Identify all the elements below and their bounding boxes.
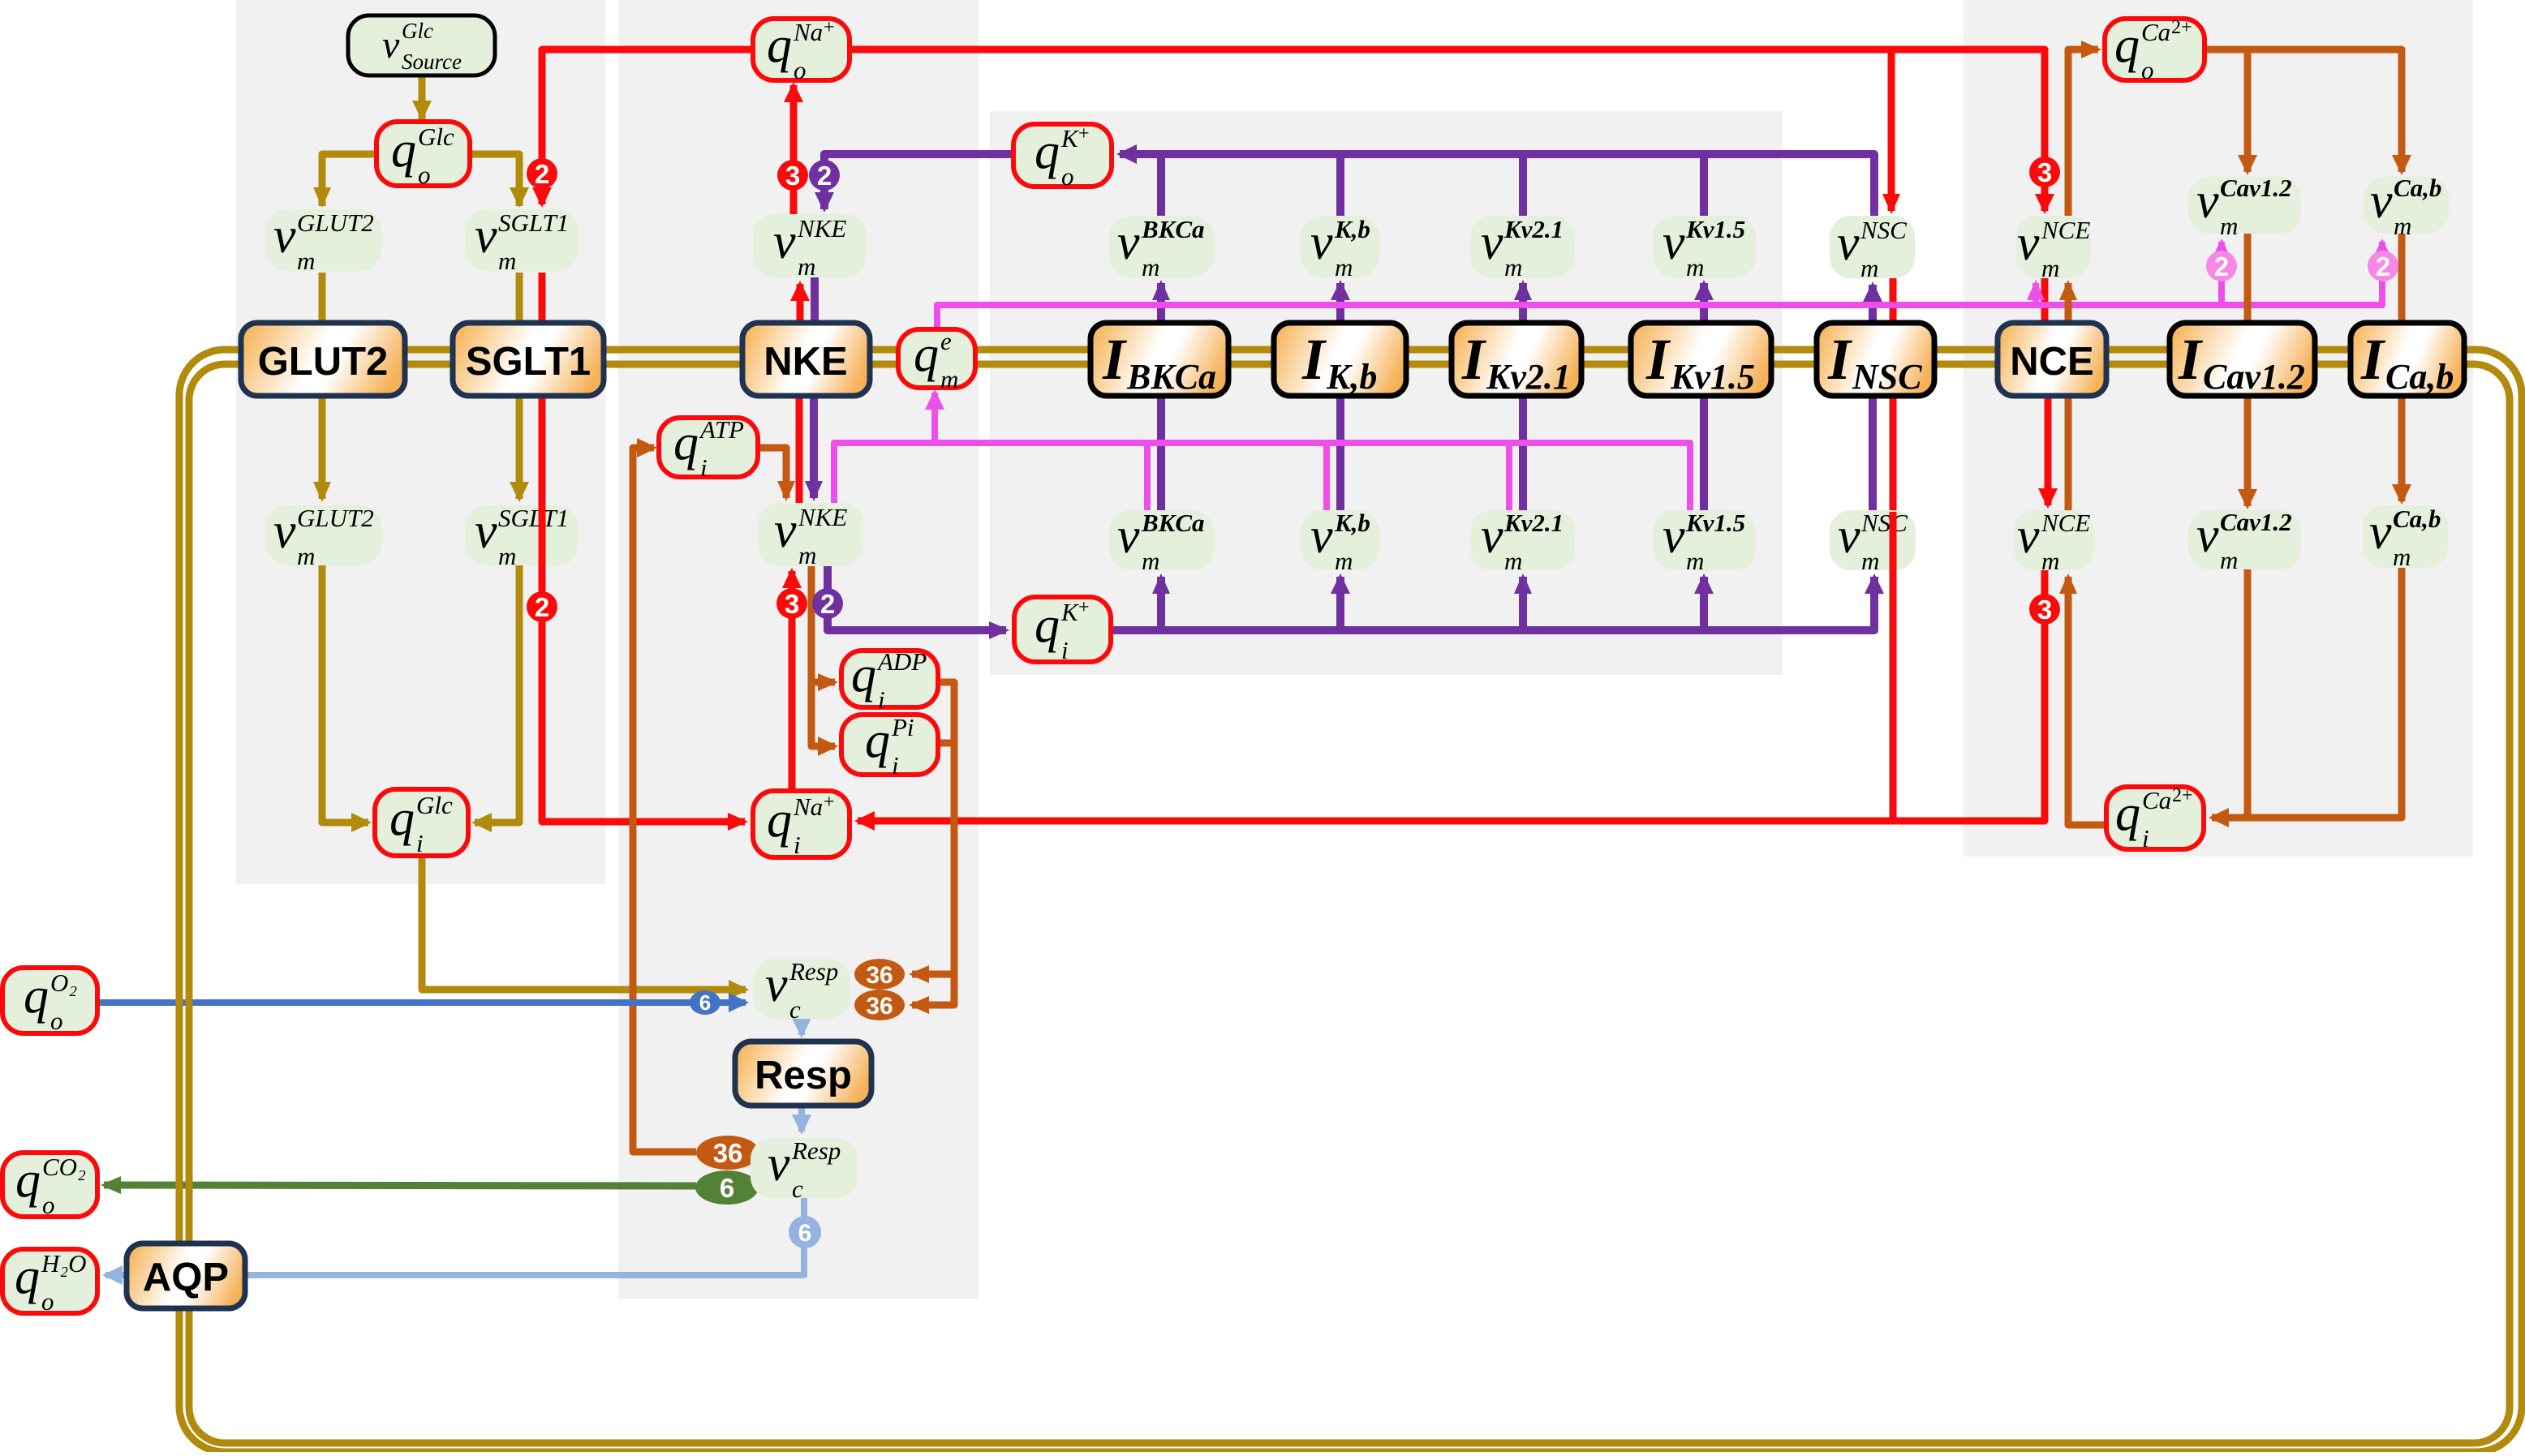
wire q_m^e upper line to v_m^Ca,b (magenta, x2) [937, 238, 2392, 329]
svg-text:Cav1.2: Cav1.2 [2220, 174, 2292, 202]
svg-text:Glc: Glc [416, 791, 453, 819]
node v_m^Cav1.2 upper [2188, 174, 2301, 240]
svg-text:3: 3 [785, 161, 800, 191]
node q_o^Glc [376, 122, 470, 189]
svg-text:CO₂: CO₂ [42, 1153, 86, 1181]
svg-text:m: m [1142, 253, 1159, 281]
svg-text:+: + [1078, 123, 1090, 144]
svg-text:q: q [767, 18, 792, 73]
node v_m^GLUT2 [266, 208, 381, 275]
wire lower line to v_m^K,b lower (magenta) [1323, 443, 1330, 510]
svg-text:v: v [2017, 216, 2040, 271]
svg-text:I: I [1102, 327, 1128, 392]
svg-text:+: + [1078, 597, 1090, 618]
svg-text:i: i [892, 751, 899, 780]
wire v_m^NKE lower to channel lower line (magenta) [834, 443, 1690, 510]
wire lower line to v_m^BKCa lower (magenta) [1144, 443, 1151, 510]
node v_m^Kv2.1 upper [1470, 215, 1575, 281]
svg-text:Ca: Ca [2141, 18, 2170, 46]
wire NCE box to v_m^NCE lower (red) [2038, 396, 2058, 509]
svg-text:K,b: K,b [1334, 215, 1370, 243]
svg-text:2+: 2+ [2171, 17, 2192, 38]
wire I_BKCa to v_m^BKCa upper (purple) [1152, 280, 1170, 323]
wire q_i^K+ up to v_m^Kv1.5 lower (purple) [1694, 573, 1714, 630]
wire red crossing over v_m^SGLT1 lower [539, 505, 546, 565]
badge 3 on v_m^NKE to q_o^Na (red) [777, 160, 808, 191]
svg-text:Glc: Glc [402, 19, 433, 43]
wire q_i^K+ up to v_m^Kv2.1 lower (purple) [1514, 573, 1532, 630]
svg-text:SGLT1: SGLT1 [498, 504, 569, 532]
wire lower line up to q_m^e (magenta) [925, 389, 944, 443]
svg-text:K: K [1060, 598, 1080, 626]
svg-text:m: m [297, 542, 315, 570]
node q_m^e [898, 327, 975, 393]
svg-text:m: m [1504, 253, 1522, 281]
node q_o^O2 [2, 968, 97, 1035]
badge 6 on H2O wire (light blue) [789, 1216, 821, 1248]
svg-text:O₂: O₂ [50, 969, 77, 997]
svg-text:BKCa: BKCa [1141, 215, 1205, 243]
svg-text:v: v [1117, 509, 1140, 564]
svg-text:m: m [798, 252, 815, 281]
badge 2 on SGLT1 to q_i^Na (red) [527, 591, 557, 622]
node v_Source^Glc [348, 15, 495, 75]
svg-text:2: 2 [817, 161, 832, 191]
svg-text:NSC: NSC [1860, 509, 1908, 537]
svg-text:Ca: Ca [2142, 786, 2171, 814]
svg-text:m: m [1861, 547, 1879, 575]
wire q_i^K+ up to v_m^BKCa lower (purple) [1152, 573, 1170, 630]
svg-text:i: i [794, 831, 801, 859]
wire I_NSC to v_m^NSC lower (purple) [1869, 396, 1877, 512]
svg-text:m: m [498, 247, 516, 275]
wire q_o^Na+ branch to v_m^NSC (red) [1882, 49, 1900, 214]
wire v_m^Kv1.5 upper to K line (purple) [1700, 154, 1708, 216]
wire v_m^NCE upper to q_o^Ca2+ (brown) [2068, 41, 2101, 216]
wire v_m^K,b upper to K line (purple) [1336, 154, 1344, 216]
wire v_m^NKE upper to NKE box (purple) [811, 277, 819, 323]
svg-text:m: m [1142, 547, 1159, 575]
wire q_i^ATP to v_m^NKE lower (brown) [758, 448, 795, 501]
wire upper line to v_m^Cav1.2 (magenta, x2) [2212, 238, 2231, 305]
svg-text:ATP: ATP [699, 415, 744, 444]
svg-text:H₂O: H₂O [41, 1249, 87, 1278]
svg-text:I: I [1461, 327, 1487, 392]
svg-text:6: 6 [699, 990, 711, 1015]
cell membrane outer loop (gold) [179, 350, 2522, 1452]
wire red crossing over v_m^NSC lower [1890, 512, 1897, 570]
node v_m^K,b upper [1301, 215, 1379, 281]
node v_m^NCE upper [2016, 216, 2091, 282]
node v_m^GLUT2 lower [266, 504, 381, 570]
wire I_BKCa to v_m^BKCa lower (purple) [1157, 396, 1165, 512]
svg-text:I: I [1827, 327, 1853, 392]
svg-text:v: v [1310, 215, 1333, 270]
wire v_m^NCE upper to NCE box (red) [2041, 278, 2049, 323]
svg-text:v: v [273, 208, 296, 264]
svg-text:q: q [15, 1153, 41, 1208]
svg-text:m: m [297, 247, 315, 275]
svg-text:q: q [2114, 18, 2140, 73]
wire NKE box to v_m^NKE upper (red) [790, 281, 810, 323]
badge 3 on NCE to q_i^Na (red) [2029, 594, 2060, 625]
wire v_m^GLUT2 lower to q_i^Glc (gold) [322, 565, 372, 832]
channel I_Kv2.1 [1452, 323, 1581, 397]
wire q_i^Ca2+ to v_m^NCE lower (brown) [2059, 573, 2106, 825]
channel I_Kv1.5 [1631, 323, 1771, 397]
wire q_o^K+ to v_m^NKE upper (purple, x2) [815, 154, 1013, 213]
channel I_Cav1.2 [2170, 323, 2315, 397]
wire v_m^SGLT1 lower to q_i^Glc (gold) [471, 565, 519, 832]
wire v_c^Resp upper to Resp box (light blue) [792, 1018, 811, 1038]
node q_o^K+ [1013, 123, 1112, 191]
svg-text:q: q [1035, 598, 1060, 653]
wire I_Kv2.1 to v_m^Kv2.1 lower (purple) [1519, 396, 1527, 512]
wire v_m^NKE lower to q_i^ADP (brown) [811, 566, 838, 691]
svg-text:e: e [940, 327, 952, 355]
transporter NCE [1998, 323, 2106, 396]
transporter SGLT1 [453, 323, 604, 396]
badge 2 on NKE to q_i^K (purple) [812, 588, 843, 619]
svg-text:o: o [42, 1191, 55, 1219]
wire v_m^SGLT1 upper to v_m^SGLT1 lower (gold) [510, 273, 529, 502]
node q_o^H2O [2, 1249, 97, 1316]
cell membrane inner loop (gold) [189, 364, 2510, 1443]
wire I_Cav1.2 to v_m^Cav1.2 lower (brown) [2238, 234, 2257, 509]
svg-text:I: I [2360, 327, 2386, 392]
svg-text:v: v [1663, 509, 1685, 564]
wire q_o^Ca2+ branch to v_m^Cav1.2 (brown) [2238, 49, 2257, 175]
svg-text:2: 2 [2214, 251, 2229, 281]
svg-text:o: o [418, 161, 431, 189]
svg-text:i: i [416, 829, 424, 857]
svg-text:o: o [50, 1007, 63, 1035]
reaction Resp [735, 1042, 871, 1106]
badge 3 on q_o^Na to NCE (red) [2029, 157, 2060, 187]
wire q_o^Na+ to v_m^SGLT1 (red, x2) [532, 49, 753, 208]
wire lower line to v_m^Kv2.1 lower (magenta) [1506, 443, 1512, 510]
svg-text:BKCa: BKCa [1126, 357, 1216, 397]
svg-text:m: m [2394, 212, 2411, 240]
wire q_o^Glc to v_m^GLUT2 (gold) [313, 154, 376, 208]
svg-text:v: v [2196, 508, 2219, 563]
svg-text:c: c [789, 995, 801, 1024]
svg-text:v: v [273, 504, 296, 559]
wire I_K,b to v_m^K,b lower (purple) [1336, 396, 1344, 512]
node v_m^NKE lower [758, 503, 863, 569]
channel I_K,b [1274, 323, 1406, 397]
badge 36 on ADP wire (brown) [854, 959, 905, 990]
node v_m^BKCa lower [1109, 509, 1214, 575]
badge 2 on q_o^Na to SGLT1 (red) [527, 158, 557, 189]
node v_m^K,b lower [1301, 509, 1379, 575]
svg-text:2: 2 [535, 592, 549, 622]
svg-text:Ca,b: Ca,b [2393, 505, 2441, 533]
node q_o^Na+ [753, 17, 850, 84]
svg-text:Na: Na [793, 792, 823, 821]
node q_i^ADP [841, 647, 938, 714]
node q_i^Glc [375, 789, 468, 857]
svg-text:v: v [2370, 174, 2393, 229]
wire I_Kv1.5 to v_m^Kv1.5 lower (purple) [1700, 396, 1708, 512]
svg-text:q: q [673, 415, 699, 470]
svg-text:2+: 2+ [2172, 785, 2193, 806]
svg-text:q: q [767, 792, 792, 848]
svg-text:i: i [878, 685, 885, 714]
svg-text:q: q [24, 969, 49, 1024]
svg-text:m: m [498, 542, 516, 570]
wire q_o^Glc to v_m^SGLT1 (gold) [470, 154, 529, 208]
svg-text:I: I [1301, 327, 1327, 392]
badge 2 on q_m^e to v_m^Ca,b (pink) [2368, 251, 2398, 281]
svg-text:3: 3 [2037, 595, 2052, 625]
svg-text:6: 6 [720, 1173, 734, 1203]
wire v_c^Resp lower to q_i^ATP (brown, x36) [633, 438, 696, 1152]
svg-text:m: m [1686, 253, 1704, 281]
svg-text:q: q [1035, 124, 1060, 179]
svg-text:Kv2.1: Kv2.1 [1503, 509, 1564, 537]
svg-text:v: v [1310, 509, 1333, 564]
svg-text:GLUT2: GLUT2 [258, 340, 389, 384]
svg-text:I: I [1645, 327, 1671, 392]
svg-text:NSC: NSC [1860, 216, 1907, 244]
node q_o^CO2 [2, 1153, 97, 1219]
node v_m^Ca,b upper [2364, 174, 2449, 240]
node v_m^Ca,b lower [2363, 505, 2448, 571]
svg-text:Ca,b: Ca,b [2385, 357, 2454, 397]
svg-text:2: 2 [820, 589, 835, 619]
svg-text:q: q [15, 1249, 40, 1304]
svg-text:m: m [1335, 253, 1353, 281]
svg-text:K,b: K,b [1326, 357, 1377, 397]
svg-text:2: 2 [535, 159, 549, 189]
wire q_i^Na+ to v_m^NKE lower (red, x3) [782, 568, 802, 791]
svg-text:m: m [1860, 254, 1878, 282]
wire I_NSC to v_m^NSC upper (purple) [1863, 281, 1882, 323]
channel I_Ca,b [2351, 323, 2464, 397]
wire v_m^NSC lower to red bottom line (red) [1890, 278, 1897, 821]
svg-text:v: v [765, 957, 788, 1012]
wire v_m^Cav1.2 lower to q_i^Ca2+ (brown) [2209, 569, 2248, 827]
badge 2 on q_o^K to NKE (purple) [809, 160, 840, 191]
svg-text:36: 36 [866, 993, 893, 1020]
wire v_m^NKE up to q_o^Na+ (red, x3) [784, 82, 803, 277]
wire I_Kv1.5 to v_m^Kv1.5 upper (purple) [1694, 280, 1714, 323]
node v_m^Kv2.1 lower [1470, 509, 1575, 575]
wire q_i^K+ up to v_m^K,b lower (purple) [1331, 573, 1350, 630]
wire K channels to q_o^K+ (purple) [1116, 144, 1874, 216]
svg-text:m: m [1686, 547, 1704, 575]
wire v_m^GLUT2 upper to v_m^GLUT2 lower (gold) [313, 273, 331, 502]
node q_i^Na+ [753, 791, 850, 859]
node v_m^NSC upper [1830, 216, 1915, 282]
wire v_c^Resp lower to q_o^CO2 (green, x6) [101, 1176, 696, 1194]
badge 2 on q_m^e to v_m^Cav1.2 (pink) [2206, 251, 2237, 281]
wire v_Source to q_o^Glc (gold) [412, 77, 432, 121]
svg-text:Kv1.5: Kv1.5 [1685, 215, 1745, 243]
svg-text:Ca,b: Ca,b [2394, 174, 2441, 202]
svg-text:6: 6 [798, 1220, 812, 1247]
transporter GLUT2 [241, 323, 405, 396]
svg-text:ADP: ADP [876, 647, 927, 676]
svg-text:36: 36 [866, 962, 893, 989]
wire v_m^Ca,b lower joins Ca bottom line (brown) [2248, 568, 2402, 818]
background panel Ca/NCE block [1964, 0, 2473, 857]
svg-text:SGLT1: SGLT1 [466, 340, 591, 384]
svg-text:3: 3 [785, 589, 799, 619]
svg-text:v: v [475, 504, 497, 559]
svg-text:v: v [382, 24, 400, 67]
svg-text:AQP: AQP [143, 1256, 229, 1299]
node v_m^Kv1.5 lower [1653, 509, 1756, 575]
svg-text:Cav1.2: Cav1.2 [2203, 357, 2305, 397]
background panel GLUT2/SGLT1 column [236, 0, 605, 884]
svg-text:q: q [851, 647, 876, 702]
svg-text:v: v [1481, 215, 1503, 270]
svg-text:Glc: Glc [418, 122, 454, 151]
svg-text:Kv2.1: Kv2.1 [1503, 215, 1564, 243]
svg-text:m: m [798, 541, 816, 569]
wire q_o^O2 to v_c^Resp (blue, x6) [97, 993, 749, 1012]
wire NKE box to v_m^NKE lower (red) [796, 396, 803, 505]
svg-text:i: i [1061, 636, 1069, 664]
wire Resp box to v_c^Resp lower (light blue) [792, 1106, 811, 1135]
svg-text:m: m [2041, 254, 2059, 282]
badge 3 on q_i^Na to NKE (red) [776, 588, 807, 619]
svg-text:q: q [914, 327, 939, 382]
svg-text:v: v [1663, 215, 1685, 270]
badge 6 on CO2 wire (green) [695, 1170, 759, 1205]
svg-text:v: v [2369, 505, 2392, 560]
node v_m^BKCa upper [1109, 215, 1214, 281]
wire v_m^NKE lower to q_i^K+ (purple, x2) [828, 566, 1009, 639]
svg-text:o: o [41, 1287, 54, 1316]
svg-text:NKE: NKE [798, 503, 847, 531]
svg-text:q: q [389, 791, 415, 846]
svg-text:i: i [700, 453, 708, 482]
wire q_i^Pi to v_c^Resp 36 (brown) [909, 743, 954, 1014]
svg-text:c: c [792, 1175, 803, 1203]
wire v_m^SGLT1 to q_i^Na+ (red, x2) [542, 273, 748, 831]
svg-text:NKE: NKE [797, 214, 846, 243]
transporter NKE [742, 323, 870, 396]
svg-text:v: v [475, 208, 497, 264]
wire I_K,b to v_m^K,b upper (purple) [1331, 280, 1350, 323]
transporter AQP [127, 1243, 245, 1308]
svg-text:Na: Na [793, 18, 823, 46]
svg-text:v: v [1837, 216, 1860, 271]
svg-text:Cav1.2: Cav1.2 [2220, 508, 2292, 536]
background panel NKE/Resp column [618, 0, 979, 1299]
node q_o^Ca2+ [2105, 17, 2205, 84]
svg-text:q: q [2115, 786, 2140, 841]
wire q_i^Glc to v_c^Resp (gold) [422, 857, 749, 999]
wire v_m^NCE lower to v_m^NCE upper (brown) [2059, 280, 2077, 510]
svg-text:NSC: NSC [1852, 357, 1922, 397]
svg-text:NCE: NCE [2041, 216, 2090, 244]
wire upper line to v_m^NCE (magenta) [2027, 280, 2045, 305]
svg-text:BKCa: BKCa [1141, 509, 1205, 537]
badge 6 on O2 wire (blue) [690, 990, 721, 1015]
wire q_o^Na+ to NCE top line (red) [850, 49, 2054, 214]
svg-text:GLUT2: GLUT2 [297, 504, 374, 532]
svg-text:K,b: K,b [1334, 509, 1370, 537]
svg-text:i: i [2142, 824, 2149, 853]
node v_m^Kv1.5 upper [1653, 215, 1756, 281]
wire v_c^Resp lower to AQP and q_o^H2O (light blue, x6) [102, 1198, 804, 1285]
node v_m^SGLT1 [465, 208, 579, 275]
svg-text:v: v [774, 503, 797, 558]
node v_c^Resp lower [751, 1136, 858, 1203]
svg-text:m: m [1504, 547, 1522, 575]
node q_i^ATP [659, 415, 758, 482]
node q_i^K+ [1014, 597, 1111, 664]
svg-text:36: 36 [713, 1138, 743, 1168]
svg-text:v: v [1117, 215, 1140, 270]
svg-text:v: v [2017, 509, 2040, 564]
background panel K-channel block [990, 111, 1783, 675]
svg-text:NKE: NKE [764, 340, 847, 384]
node v_m^Cav1.2 lower [2188, 508, 2301, 574]
wire v_m^NKE lower to q_i^Pi (brown) [811, 682, 838, 756]
wire q_i^K+ distribution line to NSC (purple) [1111, 573, 1884, 630]
svg-text:o: o [1061, 162, 1074, 191]
svg-text:SGLT1: SGLT1 [498, 208, 569, 237]
wire I_Kv2.1 to v_m^Kv2.1 upper (purple) [1514, 280, 1532, 323]
svg-text:K: K [1060, 124, 1080, 152]
svg-text:Source: Source [402, 49, 462, 74]
svg-text:v: v [768, 1136, 790, 1192]
node v_c^Resp upper [754, 957, 850, 1024]
channel I_BKCa [1090, 323, 1228, 397]
svg-text:Kv2.1: Kv2.1 [1486, 357, 1571, 397]
node q_i^Ca2+ [2106, 785, 2204, 853]
svg-text:v: v [2196, 174, 2219, 229]
wire q_o^Ca2+ to v_m^Ca,b (brown) [2205, 49, 2411, 175]
svg-text:m: m [940, 365, 958, 393]
svg-text:o: o [794, 56, 807, 84]
wire v_m^BKCa upper to K line (purple) [1157, 154, 1165, 216]
svg-text:v: v [1481, 509, 1503, 564]
wire NKE box to v_m^NKE lower (purple) [805, 396, 823, 501]
channel I_NSC [1817, 323, 1934, 397]
svg-text:m: m [2041, 547, 2059, 575]
node v_m^NSC lower [1830, 509, 1916, 575]
svg-text:GLUT2: GLUT2 [297, 208, 374, 237]
svg-text:Resp: Resp [755, 1054, 852, 1097]
wire v_m^Kv2.1 upper to K line (purple) [1519, 154, 1527, 216]
svg-text:+: + [824, 17, 835, 38]
svg-text:q: q [391, 122, 416, 178]
svg-text:NCE: NCE [2041, 509, 2090, 537]
node v_m^NCE lower [2014, 509, 2094, 575]
node q_i^Pi [841, 713, 938, 780]
svg-text:Kv1.5: Kv1.5 [1670, 357, 1755, 397]
svg-text:Kv1.5: Kv1.5 [1685, 509, 1745, 537]
wire q_i^ADP to v_c^Resp 36 (brown) [909, 682, 954, 983]
svg-text:m: m [2220, 546, 2238, 574]
svg-text:NCE: NCE [2010, 340, 2093, 384]
svg-text:m: m [1335, 547, 1353, 575]
wire NCE lower to q_i^Na+ (red, x3) [854, 570, 2045, 831]
svg-text:Pi: Pi [891, 713, 914, 741]
svg-text:+: + [824, 792, 835, 813]
svg-text:m: m [2393, 543, 2411, 571]
svg-text:m: m [2220, 212, 2238, 240]
wire I_Ca,b to v_m^Ca,b lower (brown) [2392, 234, 2411, 505]
svg-text:2: 2 [2376, 251, 2390, 281]
node v_m^SGLT1 lower [465, 504, 579, 570]
